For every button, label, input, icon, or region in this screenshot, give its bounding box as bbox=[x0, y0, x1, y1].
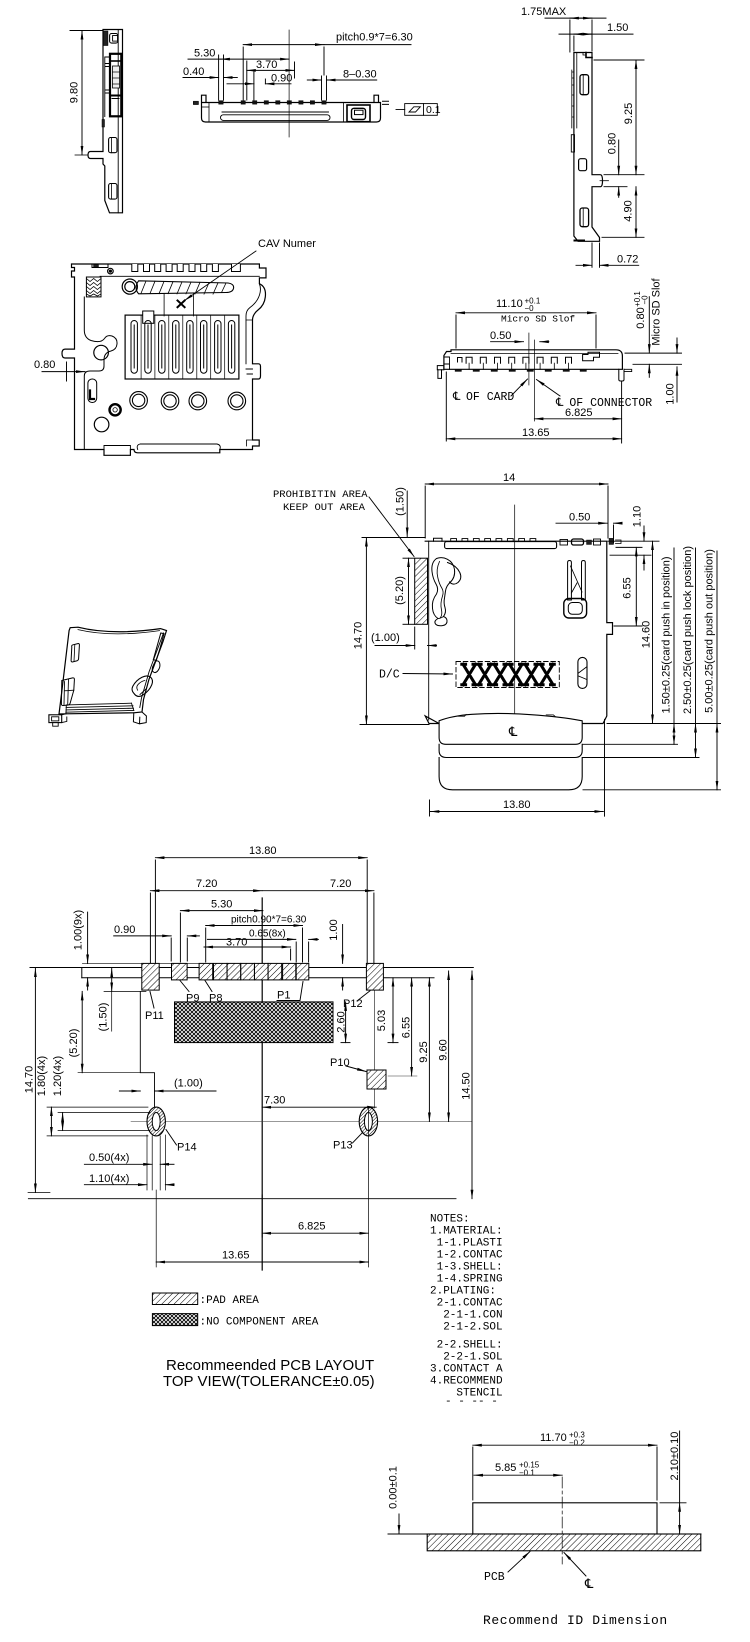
svg-text:TOP VIEW(TOLERANCE±0.05): TOP VIEW(TOLERANCE±0.05) bbox=[163, 1373, 375, 1390]
legend no component swatch bbox=[152, 1314, 197, 1326]
rear view centerline of connector bbox=[533, 340, 535, 421]
card line ext push-lock bbox=[583, 757, 699, 759]
open view contact fingers bbox=[131, 321, 235, 374]
dim (1.50) pcb vline bbox=[111, 968, 113, 991]
left side view inner vertical line bbox=[117, 30, 119, 213]
dim 0.00 id bbox=[398, 1514, 400, 1534]
svg-text:0.90: 0.90 bbox=[271, 73, 292, 85]
dim 9.80 line bbox=[81, 31, 83, 155]
svg-text:−0.1: −0.1 bbox=[519, 1469, 535, 1478]
dim 14 line bbox=[425, 483, 608, 485]
dim 9.60 vline pcb bbox=[448, 971, 450, 1122]
open view small circle 2 bbox=[94, 417, 109, 432]
svg-text:6.825: 6.825 bbox=[298, 1221, 326, 1233]
leader D/C bbox=[403, 673, 453, 676]
svg-text:℄: ℄ bbox=[584, 1577, 594, 1592]
iso plate outline bbox=[59, 627, 167, 714]
dim 5.00pm vline bbox=[716, 551, 718, 724]
svg-text::PAD AREA: :PAD AREA bbox=[200, 1295, 260, 1307]
closed view top right pin bbox=[609, 538, 614, 544]
dim 13.65 pcb bbox=[156, 1261, 368, 1263]
left side view middle latch window bbox=[109, 138, 117, 153]
svg-text:−0.2: −0.2 bbox=[569, 1439, 585, 1448]
SECTION: id dimension view bbox=[427, 1477, 701, 1564]
svg-text:−0: −0 bbox=[641, 295, 650, 305]
svg-text:Micro SD Slof: Micro SD Slof bbox=[501, 314, 575, 325]
SECTION: isometric view bbox=[49, 627, 167, 726]
svg-text:1-1.PLASTI: 1-1.PLASTI bbox=[430, 1238, 503, 1250]
dim 0.90 line bbox=[227, 83, 254, 85]
latch lever left bbox=[432, 558, 455, 626]
svg-text:3.70: 3.70 bbox=[226, 937, 247, 949]
svg-text:- - -- -: - - -- - bbox=[445, 1396, 498, 1408]
svg-text:0.80: 0.80 bbox=[34, 359, 55, 371]
open view bottom inner lines bbox=[104, 444, 220, 450]
svg-text:0.00±0.1: 0.00±0.1 bbox=[388, 1466, 400, 1509]
svg-text:1.20(4x): 1.20(4x) bbox=[52, 1056, 64, 1096]
dim (5.20) vline bbox=[408, 558, 410, 624]
front view left end ticks bbox=[194, 101, 199, 104]
dim (5.20) pcb vline bbox=[81, 991, 83, 1072]
dim 4.90 line bbox=[635, 187, 637, 238]
svg-text:P1: P1 bbox=[277, 990, 290, 1002]
rear view inner top line bbox=[451, 353, 618, 355]
svg-text:0.1: 0.1 bbox=[426, 104, 441, 116]
svg-text:Recommeended PCB LAYOUT: Recommeended PCB LAYOUT bbox=[166, 1357, 374, 1374]
svg-text:1.50±0.25(card push in positio: 1.50±0.25(card push in position) bbox=[661, 556, 673, 713]
svg-text:0.40: 0.40 bbox=[183, 66, 204, 78]
left side view peg centerline bbox=[75, 154, 88, 156]
svg-text:9.25: 9.25 bbox=[418, 1041, 430, 1062]
rear view contact stems bbox=[469, 363, 568, 369]
svg-text:Micro SD Slof: Micro SD Slof bbox=[651, 277, 663, 345]
SECTION: mid-left open top view bbox=[62, 264, 266, 455]
open view outer outline bbox=[62, 264, 266, 455]
right side view latch window 2 bbox=[579, 159, 587, 171]
svg-text:1.50: 1.50 bbox=[607, 22, 628, 34]
closed view centerline bbox=[514, 505, 516, 737]
svg-text:NOTES:: NOTES: bbox=[430, 1214, 470, 1226]
svg-text:pitch0.90*7=6.30: pitch0.90*7=6.30 bbox=[231, 915, 307, 926]
dim 0.50 closed view bbox=[556, 522, 607, 524]
svg-text:(1.00): (1.00) bbox=[371, 632, 400, 644]
dim 2.50pm vline bbox=[695, 548, 697, 724]
open view top teeth bbox=[132, 264, 241, 272]
open view finger separators bbox=[141, 315, 225, 379]
svg-text:13.80: 13.80 bbox=[249, 845, 277, 857]
svg-text:6.825: 6.825 bbox=[565, 407, 593, 419]
rear view centerline of card bbox=[528, 333, 530, 385]
dim 1.20(4x) vline bbox=[62, 1113, 64, 1131]
dim 0.80 left arrow bbox=[42, 362, 85, 381]
legend pad area swatch bbox=[152, 1293, 197, 1305]
iso hook bbox=[152, 661, 160, 673]
svg-text:13.65: 13.65 bbox=[522, 427, 550, 439]
open view small screw circle bbox=[108, 268, 114, 274]
right side view latch window 1 bbox=[580, 75, 589, 95]
pads P8-P1 bbox=[199, 963, 309, 980]
closed view guide bar bbox=[445, 542, 557, 549]
svg-text:14.60: 14.60 bbox=[641, 621, 653, 649]
dim 2.60 vline bbox=[345, 1002, 347, 1043]
card dashed marking box bbox=[456, 662, 559, 688]
dim 9.25 extension and line bbox=[594, 59, 644, 61]
iso front-left foot bbox=[49, 715, 62, 723]
right side view body outline bbox=[574, 53, 603, 242]
svg-text:PCB: PCB bbox=[484, 1571, 505, 1584]
svg-text:2-2.SHELL:: 2-2.SHELL: bbox=[430, 1340, 503, 1352]
pad P13 oval bbox=[359, 1107, 377, 1136]
leader P10 bbox=[346, 1066, 366, 1072]
dim 1.75MAX line bbox=[545, 17, 606, 19]
rear view body outline bbox=[444, 350, 623, 370]
iso front rail band bbox=[66, 703, 134, 712]
svg-text:9.60: 9.60 bbox=[438, 1039, 450, 1060]
svg-text:3.CONTACT A: 3.CONTACT A bbox=[430, 1364, 503, 1376]
open view CAV mark bowtie bbox=[178, 301, 185, 308]
open view block top tab bbox=[143, 311, 154, 323]
pad P10 bbox=[367, 1070, 386, 1089]
id pcb bar bbox=[427, 1534, 701, 1551]
dim 1.50 line bbox=[559, 33, 633, 35]
svg-text:0.80: 0.80 bbox=[635, 307, 647, 328]
svg-text:11.70: 11.70 bbox=[540, 1432, 567, 1444]
leader P1 bbox=[277, 982, 303, 1001]
leader CL of connector bbox=[537, 380, 561, 397]
pcb outline front edge line A bbox=[30, 967, 473, 969]
svg-text:5.30: 5.30 bbox=[211, 899, 232, 911]
rear view feet under body bbox=[455, 369, 587, 371]
svg-text:5.30: 5.30 bbox=[194, 48, 215, 60]
svg-text:P10: P10 bbox=[330, 1057, 350, 1069]
rear right ext lines bbox=[625, 352, 682, 354]
SECTION: mid-right rear view bbox=[437, 350, 631, 381]
svg-text:2-2-1.SOL: 2-2-1.SOL bbox=[430, 1352, 503, 1364]
svg-text:KEEP OUT AREA: KEEP OUT AREA bbox=[283, 502, 366, 514]
svg-text:6.55: 6.55 bbox=[401, 1017, 413, 1038]
dim 0.80 lines bbox=[604, 174, 644, 176]
dim 0.80 slot vertical bbox=[648, 297, 650, 353]
dim 5.85 id bbox=[474, 1474, 562, 1476]
svg-text:1.80(4x): 1.80(4x) bbox=[36, 1056, 48, 1096]
svg-text:(1.50): (1.50) bbox=[395, 487, 407, 516]
rear view detect switch step bbox=[583, 352, 600, 361]
svg-text:0.80: 0.80 bbox=[607, 133, 619, 154]
svg-text:0.90: 0.90 bbox=[114, 924, 135, 936]
pcb oval row centerline bbox=[131, 1121, 472, 1123]
dim 1.10 vline bbox=[643, 526, 645, 541]
card outline push-in bbox=[439, 713, 582, 744]
card outline push-out bbox=[439, 758, 582, 790]
leader P9 bbox=[180, 981, 189, 992]
dim 8-0.30 line bbox=[307, 79, 321, 81]
svg-text:D/C: D/C bbox=[379, 669, 400, 682]
open view roller bbox=[122, 279, 137, 294]
leader P13 bbox=[353, 1132, 364, 1143]
svg-text:3.70: 3.70 bbox=[256, 59, 277, 71]
svg-text:OF CARD: OF CARD bbox=[466, 391, 514, 404]
svg-text:7.20: 7.20 bbox=[330, 878, 351, 890]
leader CL of card bbox=[511, 379, 528, 396]
left side view left nub bbox=[102, 120, 105, 128]
svg-text:P12: P12 bbox=[343, 998, 363, 1010]
dim 14.50 vline pcb bbox=[471, 971, 473, 1199]
svg-text:0.50: 0.50 bbox=[490, 330, 511, 342]
open view top-left edge marks bbox=[92, 264, 108, 268]
svg-text:14: 14 bbox=[503, 472, 515, 484]
svg-text:1.10(4x): 1.10(4x) bbox=[89, 1173, 129, 1185]
open view right inner lines bbox=[246, 320, 253, 446]
left side view body outline bbox=[88, 30, 123, 213]
svg-text:6.55: 6.55 bbox=[622, 577, 634, 598]
dim 3.70 line bbox=[247, 69, 295, 71]
front view centerline bbox=[288, 30, 290, 137]
leader P8 bbox=[205, 981, 212, 992]
svg-text:1-2.CONTAC: 1-2.CONTAC bbox=[430, 1250, 503, 1262]
dim 0.40 line bbox=[183, 77, 219, 79]
dim (1.00) arrows bbox=[375, 645, 415, 647]
dim 7.20 right bbox=[262, 890, 374, 892]
closed view top-left corner marks bbox=[434, 538, 443, 541]
svg-text:0.72: 0.72 bbox=[617, 254, 638, 266]
open view mark cell lines bbox=[163, 294, 165, 316]
open view left capsule cutout bbox=[88, 379, 97, 403]
dim 5.30 pcb bbox=[180, 910, 263, 912]
svg-text:5.03: 5.03 bbox=[376, 1010, 388, 1031]
leader P12 bbox=[357, 991, 370, 1001]
pad P11 bbox=[142, 963, 159, 990]
dim (1.50) vline bbox=[406, 491, 408, 537]
svg-text:1.00: 1.00 bbox=[665, 383, 677, 404]
right side view left small rect bbox=[571, 135, 574, 152]
pad P9 bbox=[172, 963, 188, 980]
right side view inner line bbox=[576, 53, 578, 129]
dim 14.60 vline bbox=[652, 541, 654, 723]
open view inner top line bbox=[100, 275, 259, 277]
svg-text:P11: P11 bbox=[145, 1010, 164, 1022]
pad P14 oval bbox=[147, 1107, 165, 1136]
dim 6.825 pcb bbox=[262, 1232, 368, 1234]
svg-text:13.65: 13.65 bbox=[222, 1250, 250, 1262]
spring contact right bbox=[568, 561, 572, 601]
svg-text:(5.20): (5.20) bbox=[68, 1029, 80, 1058]
iso slot 2 bbox=[61, 678, 74, 706]
svg-text:2.PLATING:: 2.PLATING: bbox=[430, 1286, 496, 1298]
open view left inner wall bbox=[84, 297, 117, 450]
pcb left body outline bbox=[140, 991, 154, 1107]
svg-text:8–0.30: 8–0.30 bbox=[343, 69, 377, 81]
svg-text:5.00±0.25(card push out positi: 5.00±0.25(card push out position) bbox=[704, 549, 716, 713]
leader P11 bbox=[150, 992, 154, 1009]
svg-text:1.10: 1.10 bbox=[632, 506, 644, 527]
rear view right foot bbox=[619, 369, 624, 381]
rear view right tab bbox=[624, 369, 632, 371]
open view coil spring bbox=[86, 277, 101, 297]
P13 column extension bbox=[367, 1109, 369, 1268]
dim 3.70 pcb bbox=[204, 946, 291, 948]
dim 6.55 vline bbox=[635, 547, 637, 626]
open view small circle 1 bbox=[94, 345, 109, 360]
svg-text:2.10±0.10: 2.10±0.10 bbox=[669, 1432, 681, 1481]
iso right strip lever bbox=[153, 633, 164, 661]
svg-text:PROHIBITIN AREA: PROHIBITIN AREA bbox=[273, 489, 368, 501]
left side view lower latch window bbox=[109, 184, 117, 200]
SECTION: top-middle front view bbox=[194, 95, 389, 122]
dim 14.70 vline bbox=[365, 538, 367, 725]
svg-text:1.75MAX: 1.75MAX bbox=[521, 6, 567, 18]
svg-text::NO COMPONENT AREA: :NO COMPONENT AREA bbox=[200, 1317, 319, 1329]
left side view top-right latch window bbox=[110, 34, 118, 44]
front view switch block bbox=[347, 105, 370, 122]
leader centerline id bbox=[564, 1553, 586, 1577]
svg-text:℄: ℄ bbox=[508, 725, 518, 740]
dim 13.80 pcb bbox=[155, 857, 367, 859]
dim 0.50(4x) bbox=[84, 1163, 152, 1165]
svg-text:(5.20): (5.20) bbox=[394, 576, 406, 605]
SECTION: top-left side view bbox=[75, 30, 123, 213]
dim 0.90 pcb bbox=[114, 935, 172, 937]
oval P14 extension verticals bbox=[147, 1135, 165, 1190]
dim 11.10 line bbox=[456, 312, 596, 314]
svg-text:P8: P8 bbox=[209, 993, 222, 1005]
pad P12 bbox=[366, 963, 383, 990]
svg-text:14.70: 14.70 bbox=[24, 1066, 36, 1094]
right side view bottom dark edge bbox=[575, 240, 585, 242]
svg-text:1.MATERIAL:: 1.MATERIAL: bbox=[430, 1226, 503, 1238]
svg-text:1.00: 1.00 bbox=[328, 919, 340, 940]
front view bottom tray bbox=[222, 111, 329, 113]
svg-text:P13: P13 bbox=[333, 1140, 353, 1152]
left top ext line bbox=[362, 537, 425, 539]
svg-text:P14: P14 bbox=[177, 1142, 197, 1154]
left side view left ledge lines bbox=[105, 57, 110, 117]
open view small ring bbox=[110, 404, 121, 415]
right side view left pin marks bbox=[572, 70, 574, 128]
left side view contact block thick frame bbox=[110, 54, 121, 117]
svg-text:0.65(8x): 0.65(8x) bbox=[249, 929, 286, 940]
dim 6.825 line rear bbox=[534, 418, 621, 420]
open view solder circles bbox=[130, 392, 246, 410]
svg-text:9.25: 9.25 bbox=[623, 103, 635, 124]
svg-text:℄: ℄ bbox=[452, 391, 461, 404]
right side view top-right notch bbox=[586, 53, 592, 58]
svg-text:4.90: 4.90 bbox=[623, 200, 635, 221]
svg-text:−0: −0 bbox=[525, 304, 535, 313]
left side view top hatch block bbox=[103, 31, 108, 46]
open view right ear inner bbox=[246, 284, 260, 374]
card outline push-lock bbox=[439, 744, 582, 757]
dim 9.25 vline pcb bbox=[428, 978, 430, 1122]
closed view left inner edge bbox=[428, 541, 430, 720]
svg-text:2-1-2.SOL: 2-1-2.SOL bbox=[430, 1322, 503, 1334]
svg-text:11.10: 11.10 bbox=[496, 298, 523, 310]
dim (1.00) pcb bbox=[119, 1090, 140, 1092]
dim 1.00 vertical rear bbox=[676, 338, 678, 353]
closed view top right clips bbox=[560, 540, 568, 546]
right capsule cutout bbox=[578, 657, 587, 688]
dim pitch0.9*7=6.30 line bbox=[243, 44, 324, 46]
iso detent spring bbox=[132, 676, 152, 697]
dim 1.10(4x) bbox=[84, 1184, 147, 1186]
pcb bottom boundary bbox=[28, 1198, 456, 1200]
svg-text:2.60: 2.60 bbox=[336, 1011, 348, 1032]
card marking XXXXXX bbox=[462, 664, 555, 685]
pcb centerline bbox=[261, 898, 263, 1270]
svg-text:0.50: 0.50 bbox=[569, 512, 590, 524]
dim 6.55 vline pcb bbox=[411, 978, 413, 1076]
svg-text:2-1-1.CON: 2-1-1.CON bbox=[430, 1310, 503, 1322]
dim 2.10 id bbox=[679, 1431, 681, 1503]
dim 0.65 pcb bbox=[207, 938, 295, 940]
card line ext push-out bbox=[583, 789, 721, 791]
svg-text:7.20: 7.20 bbox=[196, 878, 217, 890]
right side view latch window 3 bbox=[580, 208, 589, 227]
iso slot 1 bbox=[71, 644, 79, 662]
svg-text:1.00(9x): 1.00(9x) bbox=[73, 910, 85, 950]
open view contact block frame bbox=[125, 315, 239, 379]
id boss box bbox=[473, 1503, 657, 1534]
svg-text:(1.00): (1.00) bbox=[174, 1078, 203, 1090]
front view inner partitions bbox=[208, 103, 210, 123]
svg-text:2.50±0.25(card push lock posit: 2.50±0.25(card push lock position) bbox=[682, 546, 694, 714]
dim 1.80(4x) vline bbox=[50, 1107, 52, 1136]
svg-text:P9: P9 bbox=[186, 993, 199, 1005]
SECTION: middle closed top view bbox=[415, 505, 621, 790]
svg-text:CAV Numer: CAV Numer bbox=[258, 238, 316, 250]
dim 7.20 left bbox=[150, 890, 262, 892]
right side view peg centerline bbox=[600, 180, 609, 182]
leader prohibit area bbox=[369, 497, 414, 557]
svg-text:5.85: 5.85 bbox=[495, 1462, 516, 1474]
dim 0.50 line rear bbox=[491, 341, 524, 343]
id centerline bbox=[561, 1477, 563, 1564]
svg-text:0.50(4x): 0.50(4x) bbox=[89, 1152, 129, 1164]
dim 11.70 id bbox=[473, 1444, 657, 1446]
svg-text:pitch0.9*7=6.30: pitch0.9*7=6.30 bbox=[336, 32, 413, 44]
dim 0.72 lines bbox=[591, 243, 593, 267]
svg-text:9.80: 9.80 bbox=[69, 82, 81, 103]
dim 1.00(9x) vline bbox=[87, 912, 89, 963]
svg-text:7.30: 7.30 bbox=[264, 1095, 285, 1107]
leader P14 bbox=[166, 1130, 177, 1146]
rear view left foot bbox=[437, 366, 444, 370]
svg-text:13.80: 13.80 bbox=[503, 799, 531, 811]
SECTION: pcb layout bbox=[28, 858, 473, 1270]
dim 1.00 pads vline right bbox=[342, 925, 344, 964]
leader PCB bbox=[508, 1552, 530, 1573]
front view main body bbox=[202, 95, 381, 122]
dim 5.30 line bbox=[188, 58, 221, 60]
rear view left end details bbox=[444, 357, 450, 369]
right ext of body bottom bbox=[607, 723, 721, 725]
svg-text:(1.50): (1.50) bbox=[98, 1003, 110, 1032]
iso right-bottom foot bbox=[133, 712, 146, 724]
front view solder feet bbox=[219, 101, 327, 105]
svg-text:1-4.SPRING: 1-4.SPRING bbox=[430, 1274, 503, 1286]
dim pitch pcb bbox=[206, 925, 303, 927]
dim 13.80 line closed view bbox=[430, 811, 603, 813]
svg-text:Recommend ID Dimension: Recommend ID Dimension bbox=[483, 1613, 668, 1628]
svg-text:14.50: 14.50 bbox=[461, 1072, 473, 1100]
dim 13.65 line rear bbox=[446, 438, 621, 440]
svg-text:4.RECOMMEND: 4.RECOMMEND bbox=[430, 1376, 503, 1388]
dim 7.30 pcb bbox=[262, 1106, 376, 1108]
dim 1.50pm vline bbox=[673, 548, 675, 724]
dim 14.70 pcb vline bbox=[34, 968, 36, 1192]
rear view contacts bbox=[458, 357, 572, 363]
dim 5.03 vline bbox=[392, 978, 394, 1043]
closed view shell outline bbox=[425, 541, 612, 723]
